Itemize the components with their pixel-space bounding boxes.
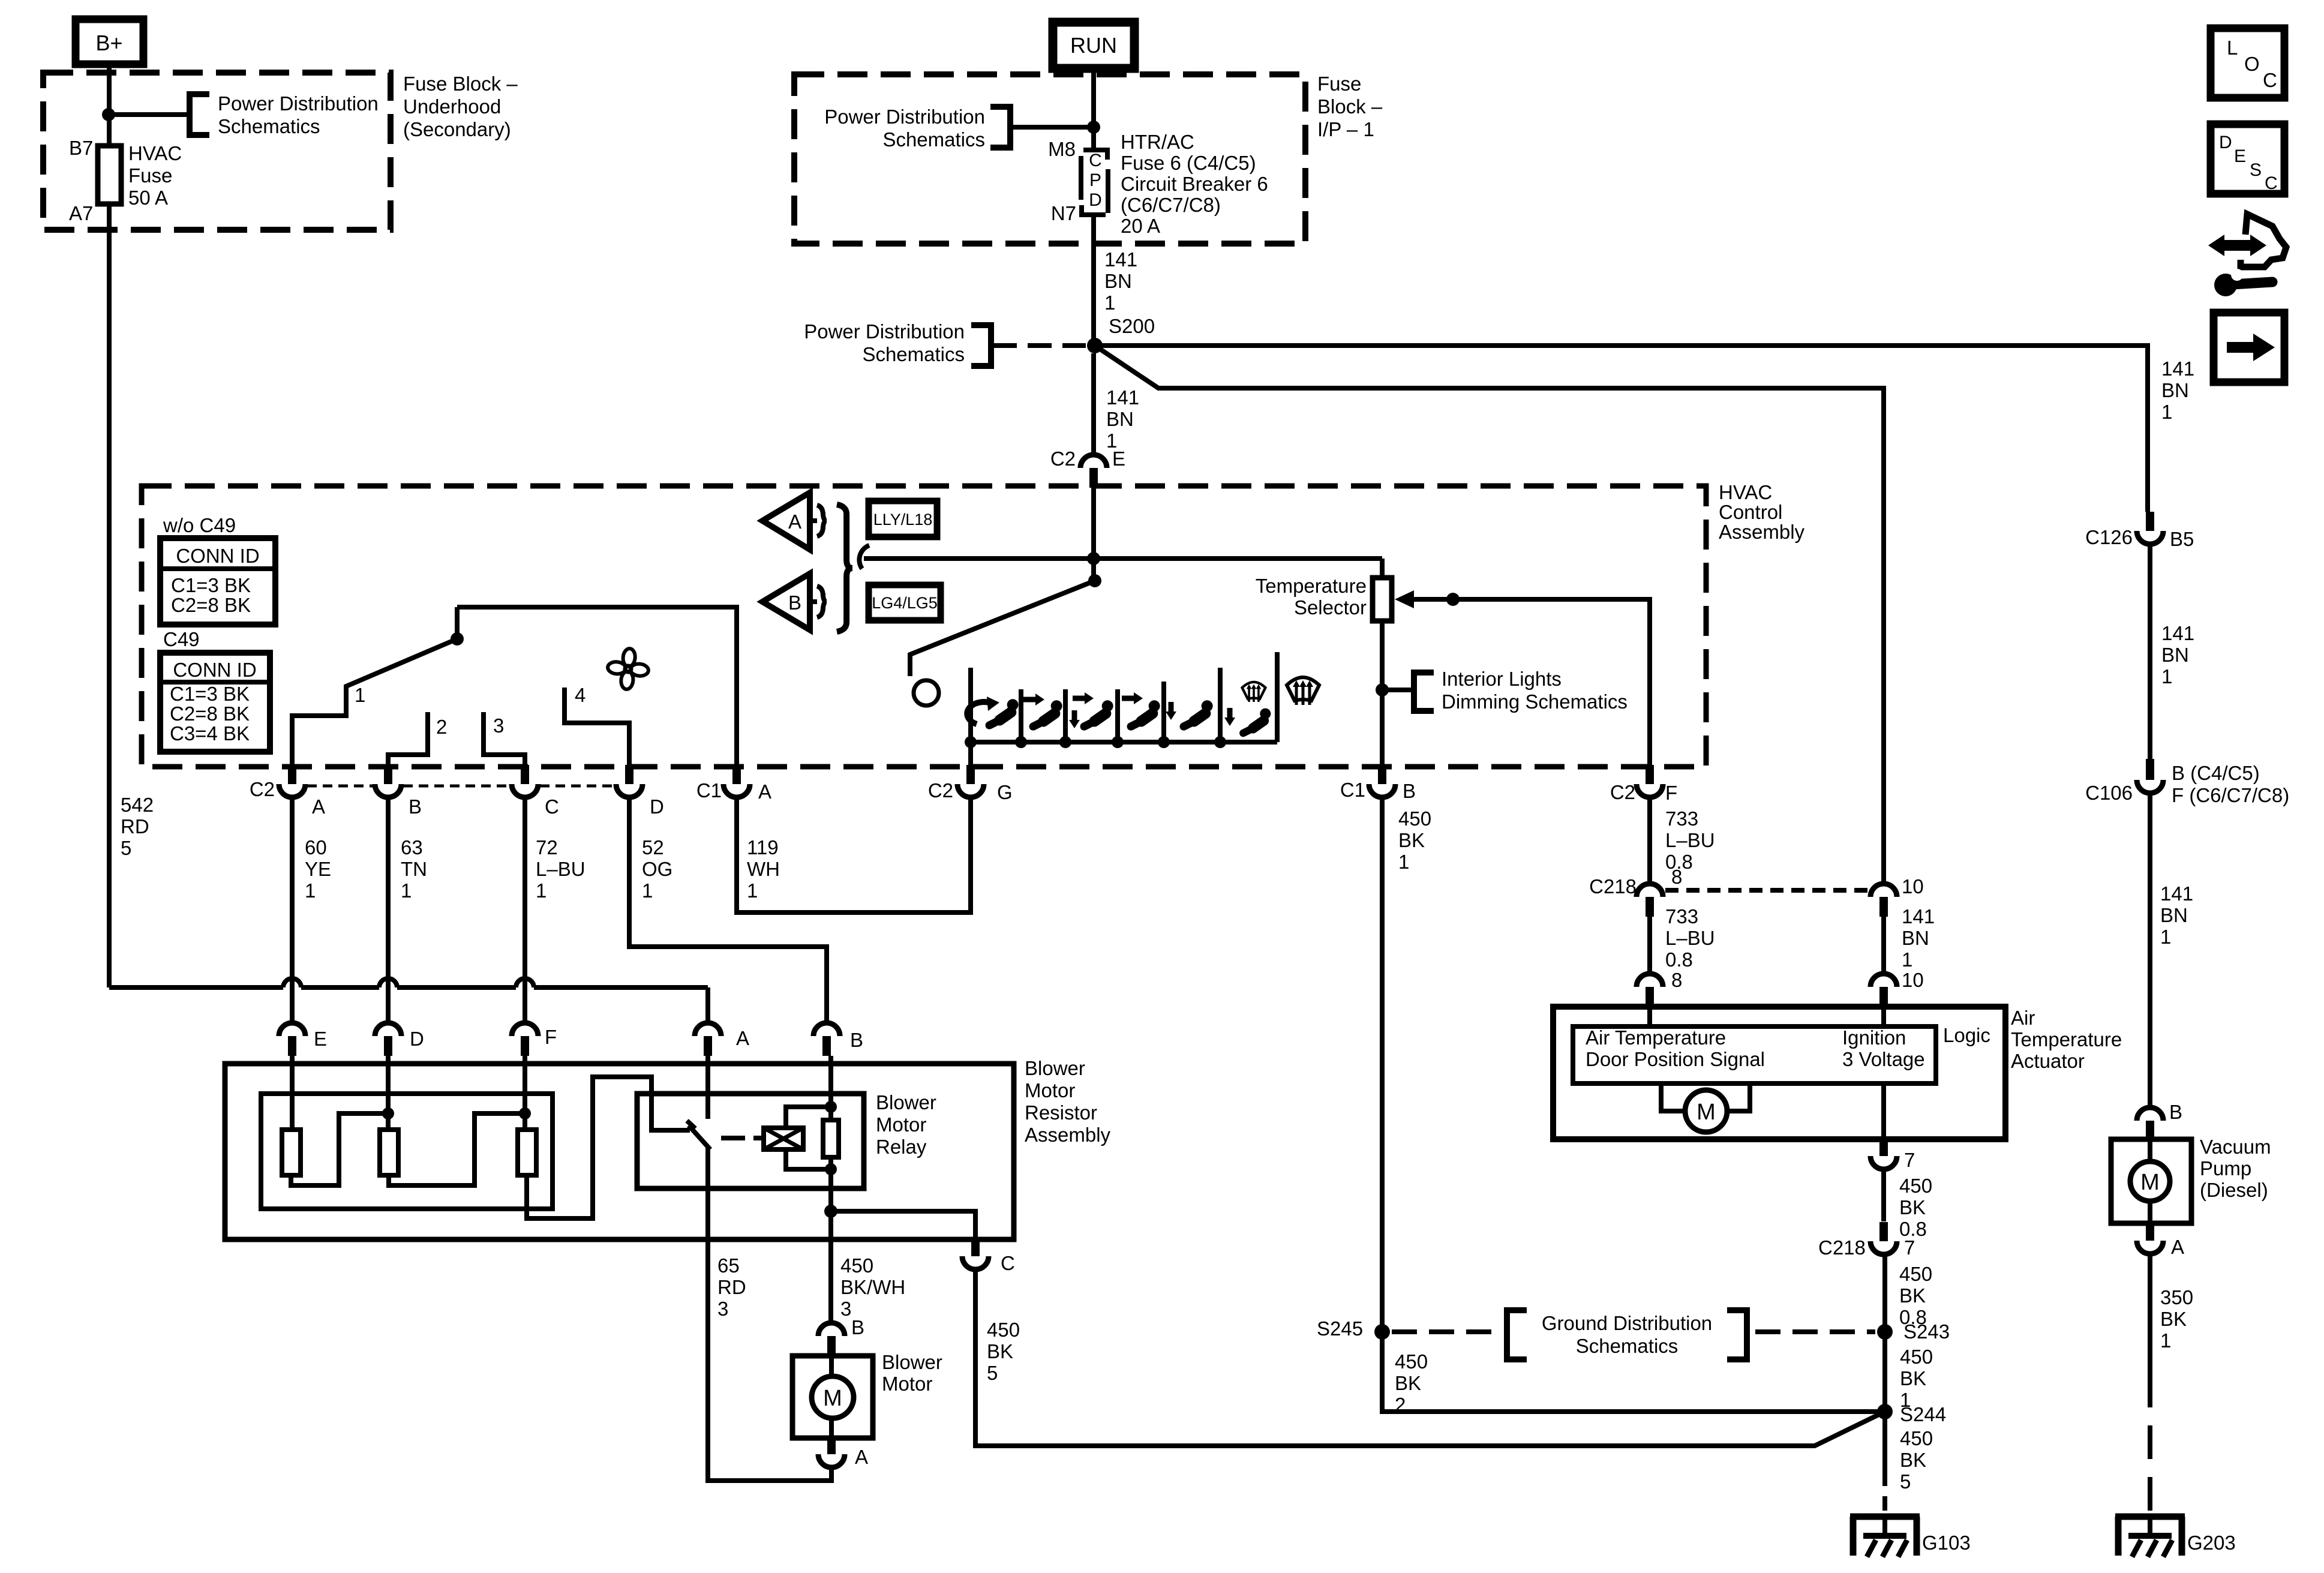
svg-text:C: C	[1089, 151, 1102, 170]
svg-text:Motor: Motor	[876, 1113, 926, 1136]
fuse block underhood dashed box	[43, 73, 391, 230]
temperature selector potentiometer	[1380, 559, 1385, 578]
svg-text:A: A	[788, 511, 801, 533]
connector C2 pin E into HVAC control	[1080, 455, 1107, 468]
svg-text:C: C	[2265, 173, 2278, 193]
svg-text:CONN ID: CONN ID	[173, 659, 256, 681]
mode icon vent to face	[1033, 700, 1062, 727]
svg-text:S: S	[2250, 160, 2262, 180]
svg-text:B: B	[850, 1029, 863, 1051]
connector actuator output pin 7	[1879, 1139, 1888, 1156]
svg-text:Ignition: Ignition	[1842, 1026, 1906, 1049]
wire junction to connector C	[831, 1211, 975, 1239]
svg-text:BK: BK	[1900, 1449, 1926, 1471]
label box LLY/L18	[869, 501, 937, 537]
svg-text:C218: C218	[1818, 1236, 1866, 1259]
svg-text:63: 63	[401, 836, 423, 858]
svg-text:WH: WH	[747, 858, 780, 880]
wire 60 YE 1	[290, 800, 295, 1022]
svg-text:BN: BN	[2161, 379, 2189, 401]
actuator motor M	[1661, 1083, 1686, 1111]
svg-text:Blower: Blower	[876, 1091, 936, 1113]
wire B+ to HVAC fuse	[107, 64, 112, 146]
mode icon defrost	[1287, 677, 1319, 705]
svg-text:1: 1	[747, 879, 758, 902]
table CONN ID with C49	[160, 653, 270, 752]
connector C218 pin 7 lower	[1879, 1222, 1888, 1241]
svg-text:C: C	[2263, 69, 2277, 91]
svg-text:20 A: 20 A	[1121, 215, 1160, 237]
svg-text:F (C6/C7/C8): F (C6/C7/C8)	[2172, 784, 2289, 806]
svg-text:RD: RD	[717, 1276, 746, 1298]
svg-text:450: 450	[1395, 1350, 1428, 1373]
svg-text:1: 1	[2160, 1329, 2171, 1352]
svg-text:B+: B+	[95, 31, 122, 55]
svg-text:L–BU: L–BU	[1665, 829, 1715, 851]
wire 733 L-BU 0.8 lower	[1647, 917, 1652, 974]
node on wiper feed line	[1446, 593, 1460, 606]
dashed connector grouping line C218	[1665, 888, 1868, 893]
blower switch terminal 3	[484, 712, 525, 767]
svg-text:D: D	[650, 795, 664, 818]
svg-text:B: B	[1403, 780, 1416, 802]
wire S200 to right edge (141 BN 1 to C126)	[1095, 346, 2148, 512]
wire junction to Power Distribution reference	[1010, 125, 1094, 130]
wire blower motor ground return to 65 RD	[708, 1147, 831, 1481]
svg-text:BK/WH: BK/WH	[840, 1276, 905, 1298]
svg-text:L–BU: L–BU	[536, 858, 585, 880]
air temperature actuator box	[1553, 1007, 2005, 1139]
resistor 2	[380, 1130, 398, 1175]
wire 450 BK 0.8 lower to S243	[1882, 1255, 1887, 1472]
reference bracket Power Distribution Schematics at S200	[971, 325, 991, 366]
node RUN ignition terminal box	[1053, 22, 1134, 68]
relay coil	[764, 1128, 803, 1149]
reference bracket Power Distribution Schematics (I/P)	[990, 107, 1010, 148]
svg-text:C2=8 BK: C2=8 BK	[170, 703, 250, 725]
wire pin F to resistor 3	[523, 1056, 527, 1130]
svg-text:BK: BK	[1398, 829, 1425, 851]
svg-text:Fuse: Fuse	[128, 164, 172, 187]
svg-text:Assembly: Assembly	[1025, 1124, 1111, 1146]
svg-text:Motor: Motor	[1025, 1079, 1075, 1101]
svg-text:E: E	[314, 1028, 327, 1050]
svg-text:C49: C49	[163, 628, 200, 650]
svg-text:Door Position Signal: Door Position Signal	[1586, 1048, 1765, 1070]
svg-text:A: A	[312, 795, 325, 818]
wire dashed lead to G103	[1882, 1472, 1887, 1514]
triangle connector B (LG4/LG5 engines)	[762, 574, 810, 630]
svg-text:450: 450	[1900, 1346, 1933, 1368]
wire actuator output 7	[1881, 1083, 1886, 1139]
svg-text:450: 450	[987, 1319, 1020, 1341]
resistor network inner box	[261, 1094, 553, 1209]
svg-text:Relay: Relay	[876, 1136, 927, 1158]
svg-text:Circuit Breaker 6: Circuit Breaker 6	[1121, 173, 1268, 195]
circuit breaker CPD HTR/AC Fuse 6 symbol	[1083, 150, 1107, 160]
svg-text:3: 3	[717, 1298, 728, 1320]
svg-text:Power Distribution: Power Distribution	[824, 106, 985, 128]
svg-text:60: 60	[305, 836, 327, 858]
svg-text:Pump: Pump	[2200, 1157, 2251, 1179]
jumper resistor 2 to wire F	[389, 1113, 525, 1185]
connector blower resistor pin C	[971, 1239, 980, 1256]
wire mode bus to C2 pin G	[968, 742, 973, 767]
node junction 450 BK/WH	[824, 1205, 837, 1218]
svg-text:CONN ID: CONN ID	[176, 545, 259, 567]
svg-text:Fuse 6 (C4/C5): Fuse 6 (C4/C5)	[1121, 152, 1256, 174]
fan icon	[607, 648, 648, 689]
node mode switch pivot	[1088, 574, 1101, 587]
svg-text:HTR/AC: HTR/AC	[1121, 131, 1194, 153]
svg-text:Actuator: Actuator	[2011, 1050, 2085, 1072]
svg-text:Motor: Motor	[882, 1373, 932, 1395]
svg-text:3: 3	[840, 1298, 851, 1320]
wire 350 BK 1	[2148, 1254, 2152, 1374]
node splice S244	[1877, 1404, 1893, 1419]
svg-text:(Diesel): (Diesel)	[2200, 1179, 2268, 1201]
svg-text:52: 52	[642, 836, 664, 858]
wire 72 L-BU 1	[523, 800, 527, 1022]
svg-text:OG: OG	[642, 858, 672, 880]
blower motor box	[792, 1356, 873, 1438]
svg-text:1: 1	[1902, 948, 1912, 971]
blower motor relay box	[637, 1094, 864, 1188]
svg-text:BK: BK	[1395, 1372, 1421, 1394]
wire pin E to resistor 1	[290, 1056, 295, 1130]
svg-text:B: B	[409, 795, 422, 818]
svg-text:S245: S245	[1317, 1317, 1363, 1340]
brace at triangle B	[817, 586, 827, 617]
mode switch rotor circle	[914, 680, 939, 706]
svg-text:50 A: 50 A	[128, 187, 168, 209]
svg-text:7: 7	[1904, 1149, 1915, 1171]
svg-text:1: 1	[2161, 401, 2172, 423]
svg-text:Air Temperature: Air Temperature	[1586, 1026, 1726, 1049]
connector resistor pin E	[279, 1023, 305, 1036]
svg-text:1: 1	[2161, 665, 2172, 688]
svg-text:C: C	[545, 795, 559, 818]
wire 141 BN 1 to vacuum pump	[2148, 794, 2152, 1107]
connector C2 pin G	[966, 765, 975, 784]
wire internal bus from engine-select brace to temperature selector	[864, 556, 1382, 561]
svg-text:M: M	[2140, 1170, 2160, 1195]
connector C218 pin 10 upper	[1870, 884, 1897, 897]
svg-text:1: 1	[2160, 926, 2171, 948]
connector relay pin A	[695, 1023, 721, 1036]
svg-text:3: 3	[493, 715, 504, 737]
svg-text:HVAC: HVAC	[1719, 481, 1772, 503]
wiper arrow into temperature selector	[1395, 590, 1414, 608]
wire 141 BN 1 to actuator	[1881, 917, 1886, 974]
wire 450 BK/WH 3 to blower motor	[828, 1211, 833, 1322]
svg-text:450: 450	[1899, 1263, 1932, 1285]
svg-text:M8: M8	[1048, 138, 1076, 160]
svg-text:141: 141	[1902, 905, 1935, 927]
svg-text:G103: G103	[1922, 1532, 1971, 1554]
node splice S243	[1877, 1324, 1893, 1340]
connector blower motor pin A	[827, 1438, 836, 1454]
reference bracket Power Distribution Schematics (underhood)	[190, 94, 209, 135]
svg-text:Blower: Blower	[1025, 1057, 1085, 1079]
connector C106 pin B/F	[2146, 759, 2154, 780]
svg-text:119: 119	[747, 836, 779, 858]
wire 119 WH 1 linking C1-A and C2-G	[737, 800, 971, 912]
reference brackets Ground Distribution Schematics	[1507, 1310, 1527, 1359]
svg-text:5: 5	[987, 1362, 998, 1384]
relay resistor	[823, 1120, 839, 1157]
svg-text:A: A	[855, 1446, 868, 1468]
svg-text:BN: BN	[1104, 270, 1132, 292]
blower switch common wire to C1 pin A	[457, 607, 737, 767]
connector C1 pin B	[1378, 765, 1386, 784]
mode icon face 2	[1131, 700, 1160, 727]
svg-text:Temperature: Temperature	[2011, 1028, 2122, 1050]
wire 542 RD horizontal into resistor pin A with hops	[109, 985, 283, 990]
wire 450 BK 0.8 upper	[1881, 1170, 1886, 1221]
svg-text:S243: S243	[1903, 1320, 1950, 1343]
svg-text:Underhood: Underhood	[403, 95, 501, 118]
svg-text:C1=3 BK: C1=3 BK	[171, 574, 251, 596]
wire 542 RD 5 from fuse down	[107, 204, 112, 987]
wire 141 BN 1 from S200 down to HVAC control	[1091, 353, 1096, 454]
wire S200 diagonal branch to air temperature actuator (141 BN 1)	[1095, 346, 1884, 884]
mode icon bi-level	[1084, 700, 1113, 727]
label box LG4/LG5	[869, 585, 941, 620]
connector blower motor pin B	[818, 1323, 845, 1336]
svg-text:P: P	[1089, 170, 1101, 190]
svg-text:1: 1	[1398, 851, 1409, 873]
svg-text:542: 542	[121, 794, 154, 816]
svg-text:C1: C1	[1340, 779, 1365, 801]
connector C126 pin B5	[2146, 512, 2154, 531]
connector vacuum pump pin B	[2137, 1107, 2163, 1121]
svg-text:B: B	[851, 1316, 864, 1338]
fuse block I/P dashed box	[794, 74, 1305, 244]
resistor 3	[518, 1130, 536, 1175]
svg-text:141: 141	[1106, 386, 1139, 409]
node B+ battery terminal box	[76, 19, 143, 64]
svg-text:(Secondary): (Secondary)	[403, 118, 511, 140]
svg-text:F: F	[545, 1026, 557, 1048]
svg-text:BN: BN	[2161, 644, 2189, 666]
svg-text:Selector: Selector	[1294, 596, 1367, 619]
svg-text:D: D	[2219, 133, 2232, 152]
vacuum pump motor M	[2148, 1140, 2152, 1161]
svg-text:RUN: RUN	[1070, 33, 1117, 58]
brace at triangle A	[817, 505, 827, 536]
node junction E wire / internal bus	[1087, 552, 1100, 565]
dotted connector grouping line C2	[307, 785, 373, 788]
connector C2 pin A	[288, 765, 296, 784]
wire below temperature selector to C1 pin B	[1380, 621, 1385, 767]
svg-text:Resistor: Resistor	[1025, 1101, 1097, 1124]
svg-text:Power Distribution: Power Distribution	[218, 92, 379, 115]
svg-text:C2: C2	[250, 778, 275, 800]
svg-text:1: 1	[401, 879, 412, 902]
actuator logic box	[1573, 1026, 1936, 1083]
blower motor M	[829, 1356, 834, 1377]
svg-text:A: A	[758, 781, 771, 803]
node blower switch pivot	[455, 607, 460, 639]
svg-text:BN: BN	[2160, 904, 2188, 926]
svg-text:1: 1	[536, 879, 547, 902]
resistor 1	[282, 1130, 301, 1175]
svg-text:4: 4	[575, 684, 585, 706]
svg-text:350: 350	[2160, 1286, 2193, 1308]
connector C2 pin F	[1646, 765, 1654, 784]
svg-text:A: A	[2171, 1236, 2184, 1258]
svg-text:BK: BK	[987, 1340, 1013, 1362]
wire dashed reference to S200	[993, 343, 1086, 348]
svg-text:3 Voltage: 3 Voltage	[1842, 1048, 1925, 1070]
relay switch blade	[687, 1121, 695, 1128]
legend box DESC	[2211, 124, 2284, 194]
svg-text:8: 8	[1671, 969, 1682, 991]
svg-text:G: G	[997, 781, 1013, 803]
svg-text:141: 141	[2160, 882, 2193, 905]
connector vacuum pump pin A	[2146, 1223, 2154, 1241]
wire 52 OG 1 with jog to relay pin B	[629, 800, 827, 1022]
svg-text:D: D	[1089, 190, 1102, 210]
wire mode switch wiper arm	[910, 581, 1095, 676]
vacuum pump box	[2111, 1139, 2191, 1223]
connector resistor pin D	[375, 1023, 401, 1036]
svg-text:5: 5	[121, 837, 131, 859]
wire 450 BK 1 from C1-B down to S245	[1382, 800, 1885, 1412]
connector resistor pin F	[512, 1023, 538, 1036]
svg-text:HVAC: HVAC	[128, 142, 182, 164]
svg-text:Power Distribution: Power Distribution	[804, 320, 965, 343]
reference bracket Interior Lights Dimming Schematics	[1414, 673, 1434, 711]
node splice S245	[1374, 1324, 1390, 1340]
table CONN ID without C49	[160, 538, 275, 625]
svg-text:BN: BN	[1106, 408, 1134, 430]
svg-text:Logic: Logic	[1943, 1024, 1990, 1046]
svg-text:C106: C106	[2085, 782, 2133, 804]
reference dashed wires Ground Distribution Schematics	[1392, 1329, 1499, 1334]
svg-text:BK: BK	[1899, 1284, 1926, 1307]
svg-text:C2=8 BK: C2=8 BK	[171, 594, 251, 616]
svg-text:Schematics: Schematics	[218, 115, 320, 137]
svg-text:Block –: Block –	[1317, 95, 1383, 118]
svg-text:2: 2	[436, 716, 447, 738]
wire resistor 3 output to relay contact	[527, 1077, 690, 1218]
svg-text:B7: B7	[69, 137, 93, 159]
svg-text:C: C	[1001, 1252, 1015, 1274]
wire relay switch to 65 RD output	[705, 1147, 710, 1239]
svg-text:2: 2	[1395, 1394, 1406, 1416]
svg-text:C1: C1	[696, 779, 722, 801]
wire relay pin A to switch	[705, 1056, 710, 1119]
legend box forward arrow	[2214, 313, 2284, 382]
svg-text:Vacuum: Vacuum	[2200, 1136, 2271, 1158]
svg-text:C1=3 BK: C1=3 BK	[170, 683, 250, 705]
wire 733 L-BU 0.8 from C2-F to C218	[1647, 800, 1652, 884]
svg-text:C2: C2	[1050, 448, 1076, 470]
svg-text:G203: G203	[2187, 1532, 2236, 1554]
blower switch terminal 4	[565, 688, 629, 767]
connector C1 pin A	[732, 765, 741, 784]
svg-text:1: 1	[355, 684, 365, 706]
HVAC Control Assembly dashed box	[142, 486, 1706, 767]
relay coil connections	[786, 1107, 831, 1128]
svg-text:B (C4/C5): B (C4/C5)	[2172, 762, 2260, 784]
svg-text:Temperature: Temperature	[1256, 575, 1367, 597]
svg-text:N7: N7	[1051, 202, 1076, 224]
svg-text:BK: BK	[1899, 1196, 1926, 1218]
svg-text:TN: TN	[401, 858, 427, 880]
svg-text:Air: Air	[2011, 1007, 2035, 1029]
blower motor resistor assembly box	[225, 1064, 1014, 1239]
svg-text:733: 733	[1665, 807, 1698, 830]
svg-text:(C6/C7/C8): (C6/C7/C8)	[1121, 194, 1221, 216]
svg-text:YE: YE	[305, 858, 331, 880]
wire 141 BN 1 between C126 and C106	[2148, 545, 2152, 759]
svg-text:Fuse Block –: Fuse Block –	[403, 73, 518, 95]
svg-text:BN: BN	[1902, 927, 1929, 949]
connector C2 pin B	[384, 765, 392, 784]
legend box LOC	[2211, 28, 2284, 98]
connector C2 pin D	[625, 765, 633, 784]
svg-text:LLY/L18: LLY/L18	[873, 511, 933, 529]
svg-text:B5: B5	[2170, 528, 2194, 550]
svg-text:RD: RD	[121, 815, 149, 837]
wire lead-in arc from brace to bus	[859, 545, 869, 569]
svg-text:450: 450	[840, 1254, 873, 1277]
connector actuator pin 10	[1870, 974, 1897, 987]
svg-text:w/o C49: w/o C49	[163, 514, 236, 536]
triangle connector A (LLY/L18 engines)	[762, 493, 810, 550]
svg-text:L: L	[2227, 37, 2238, 59]
svg-text:S200: S200	[1109, 315, 1155, 337]
mode icon defrost and floor	[1242, 682, 1266, 702]
connector C2 pin C	[521, 765, 529, 784]
svg-text:Control: Control	[1719, 501, 1782, 523]
wire 63 TN 1	[386, 800, 391, 1022]
fuse HVAC Fuse 50 A	[98, 146, 121, 204]
svg-text:I/P – 1: I/P – 1	[1317, 118, 1374, 140]
svg-text:72: 72	[536, 836, 558, 858]
svg-text:Fuse: Fuse	[1317, 73, 1361, 95]
ground G203	[2115, 1514, 2185, 1520]
node junction on B+ wire	[102, 108, 115, 121]
wire 450 BK 5 from pin C to S244	[975, 1270, 1885, 1446]
svg-text:L–BU: L–BU	[1665, 927, 1715, 949]
svg-text:D: D	[410, 1028, 424, 1050]
connector C218 pin 8 upper	[1637, 884, 1663, 897]
svg-text:Schematics: Schematics	[862, 343, 965, 365]
svg-text:5: 5	[1900, 1470, 1911, 1493]
svg-text:M: M	[823, 1386, 842, 1411]
svg-text:450: 450	[1899, 1175, 1932, 1197]
blower switch terminal 2	[388, 712, 428, 767]
svg-text:B: B	[2169, 1101, 2182, 1123]
svg-text:Schematics: Schematics	[882, 128, 985, 151]
node splice S200	[1087, 338, 1103, 353]
svg-text:1: 1	[642, 879, 653, 902]
blower switch wiper to position 1	[292, 639, 457, 767]
svg-text:Schematics: Schematics	[1576, 1335, 1679, 1357]
svg-text:C126: C126	[2085, 526, 2133, 548]
wire junction to Power Distribution reference	[109, 112, 188, 117]
svg-text:450: 450	[1900, 1427, 1933, 1449]
svg-text:E: E	[1112, 448, 1125, 470]
svg-text:BK: BK	[2160, 1308, 2187, 1330]
svg-text:10: 10	[1902, 875, 1924, 897]
svg-text:Ground Distribution: Ground Distribution	[1542, 1312, 1712, 1334]
node junction to interior lights dimming	[1376, 683, 1389, 697]
